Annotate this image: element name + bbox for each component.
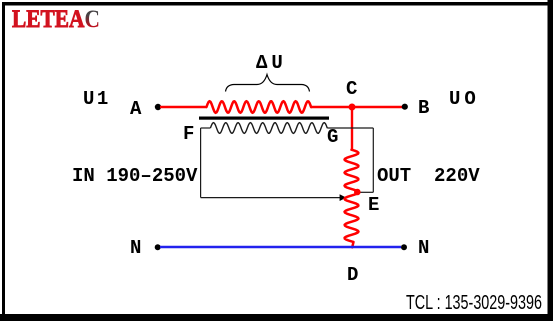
svg-text:G: G [327,126,338,148]
wire F down left side [200,128,202,198]
svg-text:N: N [130,237,141,259]
wiper arrowhead at E [340,194,347,201]
svg-text:A: A [130,98,142,120]
svg-text:IN 190–250V: IN 190–250V [72,165,198,187]
wire C down to winding (red) [351,107,353,151]
node E wiper dot (red) [354,189,361,196]
svg-text:TCL : 135-3029-9396: TCL : 135-3029-9396 [406,292,542,314]
node C junction dot (red) [349,104,356,111]
wire stub to E [358,191,373,193]
svg-text:B: B [418,97,429,119]
neutral wire N-N (blue) [160,246,401,249]
wire bottom to wiper arrow [201,197,341,199]
svg-text:OUT 220V: OUT 220V [377,165,480,187]
wire F stub [201,127,211,129]
node N right terminal dot [401,244,407,250]
svg-text:F: F [183,123,194,145]
node B terminal dot [402,104,408,110]
wire winding to B (red) [311,106,403,108]
svg-text:D: D [347,264,358,286]
wire G right (black) [327,127,373,129]
svg-text:U1: U1 [83,88,111,110]
wire A to winding (red) [160,106,207,108]
svg-text:UO: UO [449,88,480,110]
node A terminal dot [155,104,161,110]
svg-text:LETEAC: LETEAC [12,6,100,34]
secondary winding F-G (black) [210,123,327,134]
LETEAC logo [12,6,100,34]
svg-text:E: E [368,194,379,216]
regulating winding C-D (red, vertical) [345,150,359,248]
transformer core bar [199,117,329,120]
series winding A-C (red) [207,101,312,113]
svg-text:N: N [418,237,429,259]
node N left terminal dot [155,244,161,250]
svg-text:C: C [346,78,357,100]
wire G down right side [372,128,374,192]
brace over series winding [226,75,310,92]
svg-text:ΔU: ΔU [256,52,287,74]
